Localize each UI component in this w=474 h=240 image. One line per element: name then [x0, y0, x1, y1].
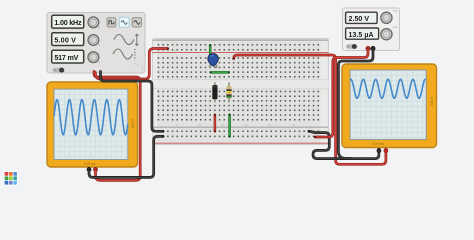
SCOPE2 terminal signal	[384, 148, 388, 153]
svg-text:10: 10	[198, 123, 202, 127]
svg-text:5.00 ms: 5.00 ms	[373, 142, 385, 146]
wire red jumper capacitor row to bottom rail right (long red)	[233, 55, 386, 164]
power supply PS1 body	[343, 8, 400, 51]
svg-text:2.50 V: 2.50 V	[349, 16, 370, 23]
svg-text:max: max	[393, 26, 399, 29]
waveform button sawtooth	[132, 18, 141, 27]
svg-text:517 mV: 517 mV	[54, 53, 78, 62]
SCOPE1 screen	[54, 89, 128, 159]
function generator FG1 body	[47, 13, 145, 74]
SCOPE2 screen	[350, 70, 426, 140]
wire FG- to breadboard bottom rail row1 (black)	[101, 72, 165, 133]
knob offset	[88, 52, 100, 63]
svg-text:0.20 ms: 0.20 ms	[84, 162, 96, 166]
svg-text:10: 10	[198, 55, 202, 59]
wire green jumper row J to bottom rail 2	[229, 114, 231, 137]
PS1 knob voltage	[381, 10, 399, 24]
SCOPE2 terminal ground	[377, 148, 381, 153]
PS1 power toggle	[346, 44, 358, 49]
SCOPE2 timebase label	[373, 96, 434, 146]
breadboard column numbers	[176, 55, 296, 128]
display offset 517 mV	[52, 50, 84, 63]
amplitude wave icon	[114, 34, 138, 45]
wire red jumper row J to bottom rail	[214, 114, 216, 132]
svg-text:2.50 V: 2.50 V	[430, 96, 434, 106]
PS1 display voltage 2.50 V	[346, 12, 378, 23]
PS1 knob current	[381, 26, 399, 40]
SCOPE1 waveform trace	[54, 100, 128, 135]
waveform button sine selected	[119, 17, 129, 27]
wire FG+ to scope1 signal (red outer loop)	[94, 72, 140, 181]
PS1 terminal negative	[371, 46, 375, 52]
breadboard body	[153, 38, 329, 144]
wire green jumper capacitor to resistor row D	[210, 71, 230, 73]
svg-text:25: 25	[268, 123, 272, 127]
display amplitude 5.00 V	[52, 33, 84, 46]
svg-text:max: max	[393, 10, 399, 13]
wire PS1- joining ground run (black)	[338, 50, 373, 159]
knob amplitude	[88, 35, 100, 46]
PS1 terminal positive	[366, 46, 370, 52]
svg-text:20.0 V: 20.0 V	[131, 118, 135, 128]
app logo	[3, 171, 18, 186]
svg-text:30: 30	[292, 123, 296, 127]
oscilloscope SCOPE2 frame	[342, 64, 437, 148]
SCOPE1 terminal signal	[94, 168, 98, 174]
resistor R1	[226, 82, 231, 102]
display frequency 1.00 kHz	[52, 15, 84, 28]
FG faint footer marks	[134, 63, 144, 70]
offset wave icon	[113, 49, 135, 60]
waveform button square	[107, 18, 116, 27]
oscilloscope SCOPE1 frame	[47, 82, 138, 167]
svg-text:20: 20	[245, 123, 249, 127]
FG power toggle	[53, 68, 65, 73]
SCOPE1 terminal ground	[87, 168, 91, 174]
diode D1	[212, 82, 217, 102]
wire black breadboard bottom rail to scope2 ground (snake)	[308, 130, 379, 158]
wire FG+ to breadboard top rail (red riser)	[95, 47, 169, 79]
wire scope1 ground to breadboard bottom rail row2 (black inner loop)	[89, 135, 164, 177]
svg-text:5.00 V: 5.00 V	[54, 36, 76, 45]
SCOPE1 timebase label	[84, 118, 135, 166]
PS1 display current 13.5 uA	[346, 28, 379, 39]
capacitor C1	[208, 54, 219, 69]
knob frequency	[88, 17, 100, 28]
wire PS1+ to scope2 signal (red)	[314, 50, 368, 139]
breadboard holes	[158, 45, 320, 137]
svg-text:13.5 µA: 13.5 µA	[349, 32, 374, 39]
SCOPE2 waveform trace	[350, 79, 426, 98]
svg-text:15: 15	[221, 123, 225, 127]
wire green jumper top rail to capacitor column	[209, 44, 211, 55]
svg-text:1.00 kHz: 1.00 kHz	[54, 18, 82, 27]
